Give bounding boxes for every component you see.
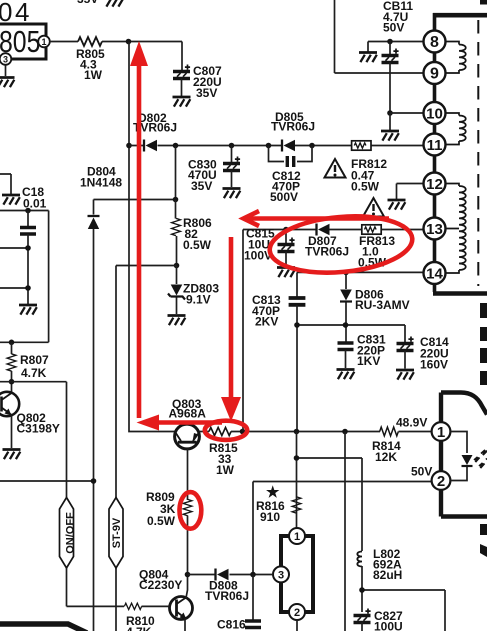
pin 8 bbox=[368, 41, 424, 43]
svg-text:A968A: A968A bbox=[169, 407, 207, 421]
svg-text:1N4148: 1N4148 bbox=[80, 176, 122, 190]
node C813 bottom bbox=[294, 322, 300, 328]
resistor R814 bbox=[380, 427, 399, 436]
svg-text:0.01: 0.01 bbox=[23, 197, 47, 211]
wire pin1 to R805 bbox=[50, 41, 78, 43]
svg-text:35V: 35V bbox=[191, 179, 212, 193]
node R807 bottom bbox=[9, 379, 15, 385]
svg-text:2: 2 bbox=[294, 607, 300, 619]
node C830 top bbox=[229, 143, 235, 149]
svg-text:C2230Y: C2230Y bbox=[139, 578, 182, 592]
dashed boundary line bbox=[477, 20, 479, 286]
svg-text:48.9V: 48.9V bbox=[396, 416, 427, 430]
pin 12 bbox=[397, 184, 424, 200]
node C812 left bbox=[266, 143, 272, 149]
wire D802 row bbox=[129, 145, 424, 147]
pin 13 bbox=[424, 218, 446, 240]
wire snubber row y325 bbox=[297, 325, 405, 342]
resistor R806 bbox=[176, 200, 177, 266]
zener ZD803 bbox=[176, 266, 178, 315]
resistor R816 bbox=[292, 497, 301, 513]
ground below C807 bbox=[173, 97, 191, 107]
pin 9 bbox=[335, 0, 424, 73]
svg-text:13: 13 bbox=[426, 221, 443, 238]
connector pin 1 bbox=[432, 422, 451, 441]
capacitor C815 bbox=[285, 230, 287, 245]
capacitor C814 bbox=[397, 337, 414, 351]
red annotation: left arrow mid bbox=[158, 420, 222, 425]
red annotation: left arrow top bbox=[246, 216, 389, 221]
svg-text:ON/OFF: ON/OFF bbox=[64, 512, 76, 554]
ground below C815 bbox=[277, 268, 295, 278]
transistor Q803 bbox=[175, 424, 200, 449]
capacitor C811 bbox=[389, 42, 391, 56]
pin 10 bbox=[390, 112, 424, 114]
node D802 anode bbox=[126, 143, 132, 149]
diode D805 bbox=[282, 140, 295, 152]
transistor Q804 bbox=[170, 597, 193, 620]
svg-text:R807: R807 bbox=[20, 353, 49, 367]
LED diode bbox=[462, 455, 473, 466]
svg-text:2: 2 bbox=[437, 473, 445, 490]
svg-text:12: 12 bbox=[426, 176, 443, 193]
capacitor C816 bbox=[252, 575, 254, 621]
wire box pin2 down bbox=[296, 620, 298, 631]
winding 8-9 bbox=[446, 42, 466, 74]
node C812 right bbox=[309, 143, 315, 149]
LED loop wires bbox=[450, 432, 467, 481]
resistor R809 bbox=[183, 499, 192, 515]
wire pin13 net down left side bbox=[242, 230, 244, 432]
partial ground at top edge bbox=[105, 0, 123, 7]
svg-text:8: 8 bbox=[430, 34, 439, 51]
svg-text:0.5W: 0.5W bbox=[183, 238, 212, 252]
warning triangle 1 bbox=[325, 159, 346, 178]
svg-text:3: 3 bbox=[278, 569, 284, 581]
svg-text:160V: 160V bbox=[420, 358, 448, 372]
svg-text:1W: 1W bbox=[84, 68, 103, 82]
IC box 805 bbox=[0, 24, 46, 59]
pin 3 of IC box bbox=[0, 53, 11, 65]
wire Q804 emitter down bbox=[184, 619, 186, 631]
pin 11 bbox=[424, 134, 446, 156]
node C816 top bbox=[250, 572, 256, 578]
wire pin3 to ground bbox=[5, 65, 7, 76]
winding 10-11 bbox=[446, 113, 466, 145]
svg-text:TVR06J: TVR06J bbox=[205, 589, 249, 603]
red annotation: ellipse around R815 bbox=[205, 421, 247, 440]
diode D804 bbox=[88, 216, 100, 229]
wire rail branch to L802 bbox=[297, 432, 363, 552]
black squares right edge bbox=[480, 303, 487, 318]
red annotation: up arrow bbox=[137, 64, 142, 418]
corner blob top right bbox=[480, 0, 487, 5]
svg-text:9.1V: 9.1V bbox=[186, 293, 211, 307]
wire Q803 base down to R809 bbox=[187, 449, 189, 500]
node R815 right bbox=[240, 429, 246, 435]
capacitor C813 bbox=[296, 272, 298, 297]
ground below ZD803 bbox=[168, 316, 186, 326]
capacitor C812 bbox=[269, 146, 313, 162]
svg-text:9: 9 bbox=[430, 66, 439, 83]
node R807 top bbox=[9, 340, 15, 346]
capacitor C830 bbox=[231, 146, 233, 164]
svg-text:0.5W: 0.5W bbox=[351, 180, 380, 194]
wire Q803 emitter to R815 bbox=[199, 431, 209, 433]
ground below C814 bbox=[396, 370, 414, 380]
svg-text:RU-3AMV: RU-3AMV bbox=[355, 298, 410, 312]
svg-text:1: 1 bbox=[294, 531, 300, 543]
ground pin12 bbox=[388, 200, 406, 210]
node L802 branch bbox=[294, 455, 300, 461]
black marks bottom right bbox=[480, 524, 487, 535]
svg-text:C3198Y: C3198Y bbox=[17, 422, 60, 436]
wire pin14 row bbox=[297, 271, 424, 273]
red annotation: ellipse around D807/FR813 bbox=[267, 211, 414, 278]
ground below C830 bbox=[223, 189, 241, 199]
node D802 cathode bbox=[173, 143, 179, 149]
svg-text:35V: 35V bbox=[196, 86, 217, 100]
transistor Q802 bbox=[0, 392, 19, 416]
50V rail right bbox=[253, 482, 432, 575]
connector outline bbox=[441, 393, 487, 517]
diode D808 bbox=[216, 569, 229, 581]
svg-text:14: 14 bbox=[426, 266, 443, 283]
node 50V/D804 line bbox=[91, 478, 97, 484]
capacitor C827 bbox=[354, 609, 371, 623]
svg-text:C816: C816 bbox=[217, 618, 246, 631]
inductor L802 bbox=[357, 552, 362, 567]
wire Q802 emitter to ground bbox=[11, 416, 13, 449]
resistor R810 bbox=[124, 603, 141, 609]
wire down to C807 bbox=[181, 42, 183, 72]
node at R805 output bbox=[126, 39, 132, 45]
wire R807 bottom to ON/OFF line bbox=[0, 382, 67, 498]
resistor R805 bbox=[78, 37, 102, 46]
wire L802 bottom row bbox=[362, 566, 445, 631]
diode D802 bbox=[144, 140, 157, 152]
node C18 top bbox=[25, 208, 31, 214]
warning triangle 2 bbox=[363, 198, 384, 217]
ground below pin 3 bbox=[0, 78, 15, 88]
capacitor C18 stub wires bbox=[0, 211, 49, 343]
ground left stub bbox=[2, 195, 20, 205]
svg-text:910: 910 bbox=[260, 510, 280, 524]
svg-text:11: 11 bbox=[427, 137, 443, 154]
wire Q804 collector up bbox=[186, 575, 188, 599]
flag ST-9V bbox=[115, 568, 117, 631]
capacitor C831 bbox=[338, 343, 354, 350]
svg-text:1KV: 1KV bbox=[357, 354, 380, 368]
wire long vertical from R805 node down to Q803 base row bbox=[129, 42, 175, 432]
fusible resistor FR812 bbox=[352, 141, 371, 150]
svg-text:35V: 35V bbox=[77, 0, 98, 6]
resistor R807 bbox=[11, 342, 13, 354]
svg-text:3: 3 bbox=[3, 55, 8, 65]
box pin 1 bbox=[289, 528, 305, 544]
svg-text:4.7K: 4.7K bbox=[126, 625, 152, 631]
svg-text:1: 1 bbox=[437, 424, 445, 441]
node C831 top bbox=[343, 322, 349, 328]
svg-text:10: 10 bbox=[426, 106, 443, 123]
wire R805 to C807 node bbox=[102, 41, 182, 43]
node C811 top bbox=[387, 39, 393, 45]
node D806 top bbox=[343, 270, 349, 276]
flag ON/OFF bbox=[60, 498, 74, 569]
svg-text:2KV: 2KV bbox=[255, 315, 278, 329]
main rail nodes bbox=[294, 429, 300, 435]
fusible resistor FR813 bbox=[362, 225, 381, 234]
wire D804 branch bbox=[94, 146, 176, 631]
ground below C831 bbox=[337, 370, 355, 380]
svg-text:TVR06J: TVR06J bbox=[305, 245, 349, 259]
stub wire to ground at left bbox=[0, 174, 11, 194]
svg-text:ST-9V: ST-9V bbox=[111, 517, 123, 548]
pin 14 bbox=[424, 262, 446, 284]
wire to ST-9V branch bbox=[116, 266, 177, 498]
svg-text:TVR06J: TVR06J bbox=[271, 120, 315, 134]
box pin 3 bbox=[273, 566, 289, 582]
resistor R815 bbox=[209, 427, 231, 435]
wire C807 to ground bbox=[181, 79, 183, 97]
node C811 bottom bbox=[387, 110, 393, 116]
svg-text:100U: 100U bbox=[374, 620, 403, 631]
relay box bbox=[281, 536, 313, 612]
ground below C18 bbox=[19, 305, 37, 315]
diode D806 bbox=[345, 272, 347, 289]
svg-text:500V: 500V bbox=[270, 190, 298, 204]
svg-text:82uH: 82uH bbox=[373, 568, 402, 582]
node R806 bottom / ZD803 bbox=[174, 263, 180, 269]
pin 1 of IC box bbox=[38, 36, 50, 48]
bottom-left thick wire bbox=[0, 624, 87, 631]
node Q804 collector / R809 bbox=[185, 572, 191, 578]
capacitor C807 bbox=[173, 65, 190, 79]
box pin 2 bbox=[289, 604, 305, 620]
transformer primary bar bbox=[433, 13, 437, 292]
red annotation: down arrow bbox=[229, 237, 234, 398]
ground below Q802 bbox=[3, 450, 21, 460]
svg-text:12K: 12K bbox=[375, 450, 397, 464]
ground below C811 bbox=[389, 113, 391, 130]
connector pin 2 bbox=[432, 471, 451, 490]
svg-text:1W: 1W bbox=[216, 463, 235, 477]
wire x345 down bbox=[344, 432, 346, 631]
red annotation: ellipse around R809 bbox=[180, 492, 202, 529]
wire ON/OFF below flag bbox=[67, 568, 125, 606]
diode D807 bbox=[317, 224, 330, 236]
wire D808 row bbox=[188, 574, 274, 576]
LED light arrows bbox=[474, 450, 487, 468]
svg-text:50V: 50V bbox=[411, 465, 432, 479]
svg-text:1: 1 bbox=[41, 37, 46, 47]
winding 12-14 bbox=[446, 184, 466, 274]
capacitor C18 bbox=[27, 211, 29, 228]
svg-text:50V: 50V bbox=[383, 21, 404, 35]
node C815 top bbox=[283, 227, 289, 233]
node C18 mid1 bbox=[25, 245, 31, 251]
50V rail left bbox=[0, 480, 94, 482]
node at D804 top bbox=[173, 197, 179, 203]
wire R815 to rail bbox=[231, 431, 380, 433]
wire pin13 row bbox=[243, 229, 424, 231]
svg-text:4.7K: 4.7K bbox=[21, 366, 47, 380]
svg-text:0.5W: 0.5W bbox=[147, 514, 176, 528]
node L802 bottom bbox=[359, 587, 365, 593]
node C18 mid2 bbox=[25, 285, 31, 291]
ground stub pin8 bbox=[367, 42, 369, 53]
